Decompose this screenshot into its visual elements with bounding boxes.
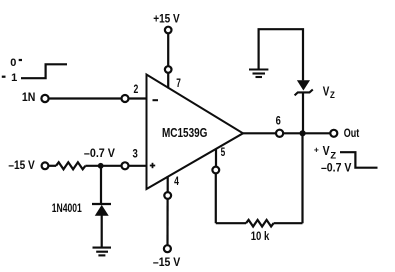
svg-text:7: 7 xyxy=(176,76,181,90)
ground (clamp diode) xyxy=(93,248,112,256)
wire feedback vertical to output node xyxy=(301,133,303,223)
wire pin 6 to Out terminal xyxy=(283,132,331,134)
wire R1 to node A xyxy=(85,165,121,167)
svg-text:0: 0 xyxy=(10,57,16,69)
resistor R2 10 k xyxy=(246,220,274,227)
+15 V supply terminal xyxy=(165,27,172,34)
-15 V supply terminal (left) xyxy=(42,162,49,169)
pin 7 terminal xyxy=(165,66,172,73)
-15 V supply terminal (bottom) xyxy=(164,245,171,252)
wire pin 2 to op-amp xyxy=(128,97,146,99)
svg-text:MC1539G: MC1539G xyxy=(162,126,207,140)
svg-text:3: 3 xyxy=(133,146,139,160)
svg-text:10 k: 10 k xyxy=(251,229,270,243)
pin 3 terminal xyxy=(122,162,129,169)
wire node A to diode D1 xyxy=(100,166,102,203)
node IN terminal xyxy=(41,95,48,102)
diode D1 1N4001 xyxy=(92,204,111,216)
svg-text:Out: Out xyxy=(344,128,360,140)
ground (zener) xyxy=(249,70,268,78)
wire pin 5 stub xyxy=(215,149,217,167)
svg-text:4: 4 xyxy=(174,174,179,188)
wire feedback bottom left xyxy=(216,222,246,224)
wire zener D2 to ground bend xyxy=(259,29,303,80)
wire feedback bottom right xyxy=(274,222,303,224)
resistor R1 xyxy=(56,162,85,169)
svg-text:V: V xyxy=(323,84,330,98)
svg-text:1N: 1N xyxy=(22,92,36,104)
svg-text:V: V xyxy=(323,144,331,158)
zener D2 label VZ xyxy=(323,84,335,101)
pin 2 terminal xyxy=(122,95,129,102)
svg-text:–15 V: –15 V xyxy=(8,158,34,172)
op-amp non-inverting input sign xyxy=(150,163,155,168)
wire IN to pin 2 xyxy=(48,97,121,99)
op-amp U1 MC1539G xyxy=(147,75,244,190)
svg-text:1: 1 xyxy=(11,72,17,84)
svg-text:–0.7 V: –0.7 V xyxy=(84,146,115,160)
svg-text:6: 6 xyxy=(276,114,281,128)
node Out terminal xyxy=(330,130,337,137)
svg-text:2: 2 xyxy=(134,82,139,96)
wire op-amp output to pin 6 xyxy=(243,132,276,134)
input waveform step 0/1 xyxy=(2,60,67,78)
svg-text:+: + xyxy=(314,144,319,154)
pin 6 terminal xyxy=(276,130,283,137)
svg-text:Z: Z xyxy=(330,90,335,101)
svg-text:5: 5 xyxy=(221,145,226,159)
wire diode D1 to ground xyxy=(101,216,103,247)
output waveform step +VZ / -0.7 V xyxy=(340,152,378,168)
wire -15V to resistor R1 xyxy=(48,165,56,167)
wire pin 4 stub xyxy=(167,176,169,192)
wire output node up to zener D2 xyxy=(302,94,304,134)
zener diode D2 VZ xyxy=(295,80,313,95)
output node junction xyxy=(300,130,306,136)
wire +15 V to pin 7 terminal xyxy=(167,33,169,67)
wire pin 5 down to feedback xyxy=(215,173,217,223)
wire pin 4 to -15 V xyxy=(166,199,168,246)
pin 5 terminal xyxy=(212,167,219,174)
op-amp inverting input sign xyxy=(153,99,159,101)
svg-text:–0.7 V: –0.7 V xyxy=(321,161,352,175)
svg-text:–15 V: –15 V xyxy=(153,255,180,269)
wire pin 7 stub xyxy=(167,73,169,89)
svg-text:1N4001: 1N4001 xyxy=(52,203,82,215)
node A junction (-0.7 V) xyxy=(98,163,104,169)
pin 4 terminal xyxy=(164,192,171,199)
svg-text:+15 V: +15 V xyxy=(153,12,180,26)
output level label +VZ xyxy=(314,144,336,162)
wire pin 3 to op-amp xyxy=(128,165,146,167)
